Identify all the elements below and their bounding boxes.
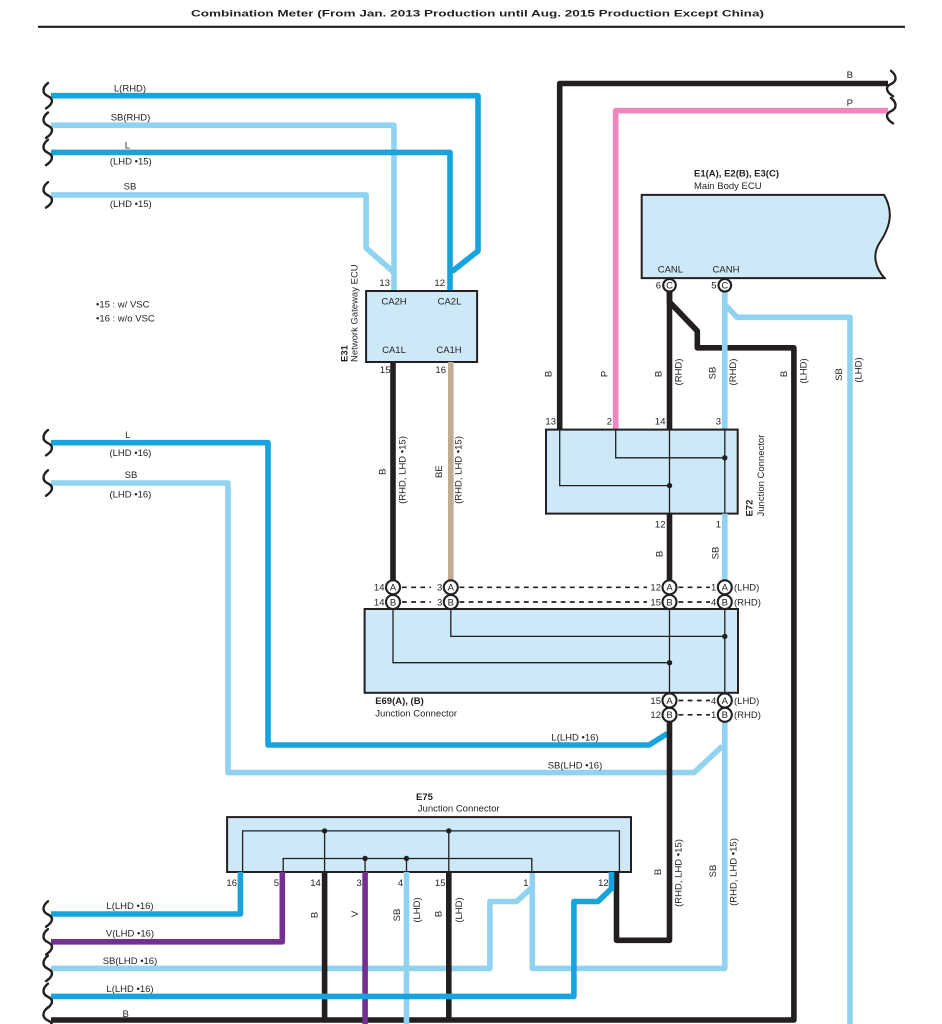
svg-text:(LHD •15): (LHD •15) — [110, 156, 152, 167]
svg-text:B: B — [655, 551, 666, 557]
svg-text:A: A — [666, 696, 673, 707]
connector circles E69 top 1A/4B + (LHD)/(RHD) — [711, 580, 761, 609]
svg-text:L(RHD): L(RHD) — [114, 84, 146, 95]
svg-text:15: 15 — [650, 696, 661, 707]
svg-text:SB: SB — [708, 865, 719, 878]
wire SB from CANH to E72 pin 3 — [708, 292, 740, 430]
svg-text:(RHD): (RHD) — [734, 597, 761, 608]
svg-text:13: 13 — [379, 278, 390, 289]
svg-text:BE: BE — [434, 465, 445, 478]
break symbol V(LHD16) — [43, 929, 51, 954]
wire SB E72 pin1 to E69 1A — [711, 514, 725, 581]
junction connector E69(A),(B) — [365, 609, 738, 720]
svg-text:B: B — [123, 1009, 129, 1020]
E69 internal bus lines — [393, 609, 725, 693]
svg-text:(RHD): (RHD) — [674, 359, 685, 386]
break symbol B top right — [887, 71, 895, 96]
svg-text:16: 16 — [226, 878, 237, 889]
connector circles E69 top 12A/15B — [650, 580, 676, 609]
svg-text:12: 12 — [655, 519, 666, 530]
svg-text:15: 15 — [650, 597, 661, 608]
svg-text:15: 15 — [435, 878, 446, 889]
junction dot E72 pin2 bus — [722, 455, 727, 460]
svg-text:14: 14 — [655, 416, 666, 427]
wire L (LHD *15) — [51, 140, 450, 291]
svg-text:•16 : w/o VSC: •16 : w/o VSC — [96, 314, 155, 325]
svg-text:15: 15 — [380, 365, 391, 376]
wire B E75 pin15 to ground run — [434, 872, 466, 1019]
wire B E75 pin14 to ground run — [310, 872, 325, 1019]
svg-text:1: 1 — [523, 878, 528, 889]
svg-text:Junction Connector: Junction Connector — [756, 435, 767, 517]
svg-text:(LHD): (LHD) — [734, 583, 759, 594]
svg-text:A: A — [390, 583, 397, 594]
wire B from CANL: bottom B run + (LHD) riser + diagonal — [51, 292, 810, 1021]
svg-text:Combination Meter (From Jan. 2: Combination Meter (From Jan. 2013 Produc… — [191, 9, 764, 20]
svg-text:(LHD •15): (LHD •15) — [110, 199, 152, 210]
svg-text:L(LHD •16): L(LHD •16) — [106, 984, 153, 995]
break symbol P top right — [887, 98, 895, 123]
svg-text:SB: SB — [124, 181, 137, 192]
wire L (LHD *16) to E75 pin16 — [51, 872, 240, 914]
junction dot E75 pin14 — [322, 828, 327, 833]
svg-text:CANL: CANL — [658, 265, 683, 276]
break symbol L(LHD16) — [43, 430, 51, 455]
svg-text:B: B — [666, 597, 672, 608]
svg-text:12: 12 — [598, 878, 609, 889]
svg-text:B: B — [310, 912, 321, 918]
break symbol SB(LHD16) — [43, 470, 51, 495]
svg-text:L(LHD •16): L(LHD •16) — [106, 901, 153, 912]
break symbol L(LHD15) — [43, 140, 51, 165]
svg-text:B: B — [654, 371, 665, 377]
svg-text:L(LHD •16): L(LHD •16) — [551, 733, 598, 744]
svg-text:E75: E75 — [416, 792, 434, 803]
connector circles E69 bottom 4A/1B + (LHD)/(RHD) — [711, 694, 761, 722]
svg-text:(LHD): (LHD) — [734, 696, 759, 707]
wire SB (LHD *16) to E69 lower 4A — [51, 470, 723, 773]
svg-text:P: P — [847, 98, 853, 109]
svg-text:13: 13 — [545, 416, 556, 427]
title — [38, 9, 905, 27]
svg-text:•15 : w/ VSC: •15 : w/ VSC — [96, 300, 150, 311]
svg-text:4: 4 — [398, 878, 403, 889]
svg-text:A: A — [722, 696, 729, 707]
break symbol SB(LHD16) lower — [43, 956, 51, 981]
svg-text:3: 3 — [716, 416, 721, 427]
svg-text:CA1H: CA1H — [436, 345, 461, 356]
junction dot E75 pin3 — [362, 856, 367, 861]
wire L(RHD) — [51, 84, 478, 272]
svg-text:E72: E72 — [745, 500, 756, 517]
svg-text:(RHD): (RHD) — [728, 359, 739, 386]
svg-text:CA2H: CA2H — [381, 296, 406, 307]
wire L (LHD *16) to E75 pin12 — [51, 872, 612, 996]
svg-text:P: P — [600, 371, 611, 377]
svg-text:B: B — [434, 911, 445, 917]
svg-text:3: 3 — [357, 878, 362, 889]
svg-text:Main Body ECU: Main Body ECU — [694, 181, 762, 192]
E75 internal bus line 1 (pins 16,14,15,12) — [243, 831, 620, 872]
svg-text:B: B — [544, 371, 555, 377]
svg-text:C: C — [666, 281, 673, 292]
svg-text:12: 12 — [650, 710, 661, 721]
svg-text:CANH: CANH — [713, 265, 740, 276]
connector circles E69 top 3A/3B — [437, 580, 458, 609]
svg-text:(LHD •16): (LHD •16) — [109, 489, 151, 500]
connector circle C pin 6 (CANL) — [656, 279, 676, 292]
svg-text:V: V — [350, 910, 361, 917]
svg-text:1: 1 — [716, 519, 721, 530]
svg-text:B: B — [847, 70, 853, 81]
ECU E31 Network Gateway ECU — [340, 264, 478, 376]
svg-text:CA2L: CA2L — [438, 296, 462, 307]
break symbol SB(RHD) — [43, 113, 51, 138]
wire B from E31 CA1L to E69 14A — [378, 362, 409, 581]
junction dot E75 pin15 — [446, 828, 451, 833]
break symbol L(LHD16) lower — [43, 901, 51, 926]
svg-text:B: B — [653, 869, 664, 875]
wire SB from CANH: (LHD) branch to right riser — [725, 305, 865, 1024]
svg-text:12: 12 — [650, 583, 661, 594]
svg-text:(LHD •16): (LHD •16) — [109, 448, 151, 459]
connector circles E69 bottom 15A/12B — [650, 694, 676, 722]
svg-text:L: L — [125, 430, 130, 441]
svg-text:16: 16 — [435, 365, 446, 376]
wire SB E75 pin4 — [392, 872, 423, 1024]
svg-text:V(LHD •16): V(LHD •16) — [106, 928, 154, 939]
junction connector E72 — [545, 416, 767, 530]
wire B from CANL to E72 pin 14 — [654, 292, 685, 430]
svg-text:1: 1 — [711, 710, 716, 721]
svg-text:(RHD, LHD •15): (RHD, LHD •15) — [454, 436, 465, 504]
svg-text:B: B — [390, 597, 396, 608]
svg-text:Junction Connector: Junction Connector — [375, 709, 457, 720]
connector circle C pin 5 (CANH) — [711, 279, 731, 292]
svg-text:6: 6 — [656, 281, 661, 292]
svg-text:SB: SB — [125, 470, 138, 481]
junction dot E75 pin4 — [404, 856, 409, 861]
svg-text:C: C — [721, 281, 728, 292]
svg-text:5: 5 — [711, 281, 716, 292]
junction connector E75 — [226, 792, 631, 889]
wire L (LHD *16) to E69 lower 15A — [51, 430, 668, 745]
junction dot E69 bus SB — [722, 634, 727, 639]
connector circles E69 top 14A/14B — [374, 580, 400, 609]
E69 top row dashes — [402, 587, 710, 602]
svg-text:E1(A), E2(B), E3(C): E1(A), E2(B), E3(C) — [694, 169, 779, 180]
svg-text:3: 3 — [437, 583, 442, 594]
svg-text:B: B — [448, 597, 454, 608]
wire SB below E69 to E75 pin1 + bottom SB(LHD*16) run — [51, 693, 740, 969]
svg-text:A: A — [722, 583, 729, 594]
svg-text:B: B — [779, 371, 790, 377]
svg-text:2: 2 — [607, 416, 612, 427]
svg-text:4: 4 — [711, 597, 716, 608]
wire V (LHD *16) to E75 pin5 — [51, 872, 282, 942]
svg-text:B: B — [378, 469, 389, 475]
svg-text:SB: SB — [834, 368, 845, 381]
svg-text:A: A — [666, 583, 673, 594]
break symbol B bottom — [43, 1007, 51, 1024]
break symbol L(LHD16) bottom — [43, 984, 51, 1009]
svg-text:(RHD, LHD •15): (RHD, LHD •15) — [729, 838, 740, 906]
svg-text:CA1L: CA1L — [382, 345, 406, 356]
wire P pink with break — [600, 98, 889, 430]
svg-text:4: 4 — [711, 696, 716, 707]
wire V E75 pin3 — [350, 872, 365, 1024]
svg-text:(RHD): (RHD) — [734, 710, 761, 721]
svg-text:14: 14 — [374, 597, 385, 608]
wire SB(RHD) — [51, 113, 394, 292]
junction dot E72 pin13 bus — [667, 483, 672, 488]
svg-text:3: 3 — [437, 597, 442, 608]
wire SB (LHD *15) — [51, 181, 394, 272]
note *15 / *16 VSC — [96, 300, 155, 325]
svg-text:SB: SB — [392, 909, 403, 922]
svg-text:14: 14 — [310, 878, 321, 889]
svg-text:SB(RHD): SB(RHD) — [111, 113, 151, 124]
svg-text:(RHD, LHD •15): (RHD, LHD •15) — [674, 839, 685, 907]
svg-text:SB: SB — [711, 547, 722, 560]
svg-text:14: 14 — [374, 583, 385, 594]
svg-text:L: L — [125, 140, 130, 151]
svg-text:Junction Connector: Junction Connector — [418, 804, 500, 815]
E75 internal bus line 2 (pins 5,3,4,1) — [283, 859, 532, 873]
svg-text:(LHD): (LHD) — [854, 357, 865, 382]
wire B E72 pin12 to E69 12A — [655, 514, 670, 581]
svg-text:B: B — [722, 597, 728, 608]
svg-text:B: B — [722, 710, 728, 721]
ECU Main Body ECU E1(A),E2(B),E3(C) — [642, 169, 890, 279]
svg-text:E69(A), (B): E69(A), (B) — [375, 696, 424, 707]
svg-text:12: 12 — [434, 278, 445, 289]
svg-text:A: A — [448, 583, 455, 594]
svg-text:(LHD): (LHD) — [454, 897, 465, 922]
svg-text:SB: SB — [708, 367, 719, 380]
svg-text:SB(LHD •16): SB(LHD •16) — [548, 761, 603, 772]
E72 internal bus lines — [560, 430, 725, 514]
wire BE from E31 CA1H to E69 3A — [434, 362, 464, 581]
E69 bottom row dashes — [679, 701, 711, 715]
svg-text:B: B — [666, 710, 672, 721]
svg-text:Network Gateway ECU: Network Gateway ECU — [350, 264, 361, 362]
wire B top right with break — [544, 70, 889, 430]
wire B below E69 to E75 pin12 — [617, 693, 685, 941]
svg-text:(LHD): (LHD) — [412, 897, 423, 922]
svg-text:(LHD): (LHD) — [799, 358, 810, 383]
svg-text:5: 5 — [274, 878, 279, 889]
svg-text:SB(LHD •16): SB(LHD •16) — [103, 956, 158, 967]
svg-text:1: 1 — [711, 583, 716, 594]
break symbol L(RHD) — [43, 83, 51, 108]
break symbol SB(LHD15) — [43, 182, 51, 207]
svg-text:(RHD, LHD •15): (RHD, LHD •15) — [398, 436, 409, 504]
junction dot E69 bus B — [667, 660, 672, 665]
